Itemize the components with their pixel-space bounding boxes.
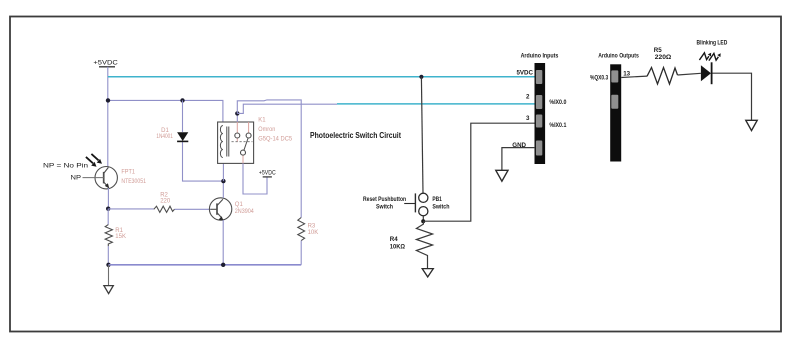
light arrow 1 into FPT1 [86, 157, 97, 167]
svg-text:%IX0.1: %IX0.1 [549, 122, 566, 129]
svg-text:FPT1: FPT1 [121, 169, 135, 175]
svg-text:R4: R4 [390, 236, 398, 243]
svg-text:10KΩ: 10KΩ [390, 244, 405, 251]
svg-text:220: 220 [160, 199, 171, 205]
wire: purple +5V rail y=100.4 [108, 100, 223, 122]
svg-text:Q1: Q1 [235, 202, 244, 208]
pin pad GND [536, 141, 542, 156]
svg-text:Switch: Switch [432, 203, 449, 210]
node: ground rail left [106, 263, 110, 267]
svg-text:2N3904: 2N3904 [235, 209, 255, 215]
LED blink arrow 2 [709, 53, 719, 60]
pin pad 3 [536, 115, 542, 128]
svg-text:13: 13 [623, 70, 630, 77]
wire: cyan 5VDC line to Arduino input pin1 [108, 76, 537, 78]
svg-text:Photoelectric Switch Circuit: Photoelectric Switch Circuit [310, 130, 401, 140]
ground (LED) [746, 120, 757, 130]
LED blink arrow 1 [699, 53, 709, 60]
wire: PB1 bottom to node [422, 216, 424, 221]
node: junction at D1 top [180, 98, 184, 102]
svg-text:1N4001: 1N4001 [156, 134, 173, 140]
power +5VDC (top-left) [93, 59, 118, 67]
resistor R3 [298, 218, 305, 241]
wire: relay output jog to input line [237, 104, 337, 113]
pin pad (second) [611, 95, 618, 109]
FPT1 emitter arrowhead [105, 183, 110, 188]
node: rail at Q1 emitter [221, 263, 225, 267]
wire: FPT1 emitter down to node [107, 188, 109, 209]
svg-text:Arduino Outputs: Arduino Outputs [598, 53, 639, 60]
relay core bars [227, 127, 229, 157]
wire: output pin to R5 [621, 76, 647, 77]
resistor R1 [105, 225, 112, 247]
svg-text:R1: R1 [115, 228, 123, 234]
svg-text:R3: R3 [308, 224, 316, 230]
svg-text:Arduino Inputs: Arduino Inputs [521, 53, 559, 60]
wire: NO contact pin up to node [236, 113, 238, 122]
wire: relay output up over to R3 [237, 100, 301, 218]
svg-text:+5VDC: +5VDC [93, 59, 118, 66]
wire: Q1 emitter down to rail [222, 220, 224, 265]
node: junction at left rail [106, 98, 110, 102]
node: relay output junction [235, 111, 239, 115]
ground (under R1) [104, 286, 113, 294]
wire: relay coil bottom pin [222, 163, 224, 181]
svg-text:NTE30051: NTE30051 [121, 179, 146, 185]
relay mechanical dashed link [232, 141, 253, 143]
LED D2 (blinking) [701, 62, 712, 84]
node: PB1/R4/pin3 junction [421, 219, 425, 223]
resistor R4 [416, 221, 432, 268]
svg-text:Switch: Switch [376, 203, 393, 210]
svg-text:Omron: Omron [258, 127, 275, 133]
wire: ground rail [109, 264, 302, 266]
svg-text:220Ω: 220Ω [655, 54, 672, 61]
PB1 pointer line [404, 203, 415, 205]
wire: R1 bottom to ground rail [107, 246, 109, 265]
pin pad 13 [611, 70, 618, 82]
svg-text:G5Q-14 DC5: G5Q-14 DC5 [258, 136, 292, 142]
svg-text:+5VDC: +5VDC [259, 170, 276, 176]
svg-text:NP = No Pin: NP = No Pin [43, 162, 88, 169]
wire: main left vertical from +5VDC to FPT1 collector [107, 67, 109, 167]
relay coil [220, 126, 223, 158]
svg-text:Reset Pushbutton: Reset Pushbutton [363, 196, 406, 203]
pin pad 5VDC [536, 70, 542, 84]
wire: LED to ground [713, 73, 752, 120]
wire: node to R2 [108, 208, 154, 210]
wire: R2 to Q1 base [175, 208, 211, 210]
svg-text:Blinking LED: Blinking LED [697, 40, 728, 47]
svg-text:15K: 15K [115, 234, 126, 240]
svg-text:K1: K1 [258, 118, 266, 124]
wire: relay common to +5VDC [243, 163, 267, 194]
PB1 actuator bar [414, 193, 416, 212]
FPT1 base lead [83, 177, 104, 179]
svg-text:10K: 10K [308, 230, 319, 236]
relay contacts [235, 133, 251, 155]
svg-text:%IX0.0: %IX0.0 [549, 99, 566, 106]
wire: stub to ground symbol [108, 265, 110, 286]
wire: Q1 collector up to relay coil node [222, 181, 224, 198]
wire: lead to R1 [107, 209, 109, 225]
ground (Arduino input GND) [496, 170, 508, 181]
pushbutton PB1 [419, 193, 428, 216]
wire: PB1 branch from 5VDC line [421, 77, 423, 193]
svg-text:2: 2 [526, 93, 530, 100]
wire: R5 to LED [678, 73, 701, 75]
relay K1 box [218, 122, 254, 163]
wire: node to Arduino input pin3 [423, 123, 535, 221]
diode D1 [177, 132, 188, 141]
power +5VDC (relay common) [259, 170, 276, 177]
svg-text:3: 3 [526, 115, 530, 122]
transistor Q1 [209, 198, 231, 220]
svg-text:PB1: PB1 [432, 196, 442, 203]
resistor R5 [647, 68, 678, 85]
svg-text:R2: R2 [160, 192, 168, 198]
phototransistor FPT1 [95, 167, 117, 189]
wire: D1 branch down and to relay coil bottom [182, 100, 184, 132]
svg-text:5VDC: 5VDC [516, 70, 533, 77]
Q1 emitter arrowhead [219, 216, 224, 221]
wire: R3 bottom to rail corner [300, 241, 302, 265]
svg-text:%QX0.3: %QX0.3 [590, 75, 609, 82]
ground (under R4) [422, 269, 433, 277]
node: junction on 5VDC line at PB1 [419, 75, 423, 79]
relay armature [244, 138, 248, 150]
node: coil bottom / D1 / Q1 collector [221, 179, 225, 183]
light arrow 2 into FPT1 [91, 154, 102, 164]
svg-text:NP: NP [71, 175, 82, 182]
wire: cyan line to Arduino input pin2 [337, 103, 537, 105]
pin pad 2 [536, 95, 542, 109]
relay pin stubs (salmon) [237, 122, 248, 163]
wire: GND pin to ground [502, 148, 535, 171]
node: emitter/R1/R2 junction [106, 207, 110, 211]
resistor R2 [154, 206, 175, 212]
